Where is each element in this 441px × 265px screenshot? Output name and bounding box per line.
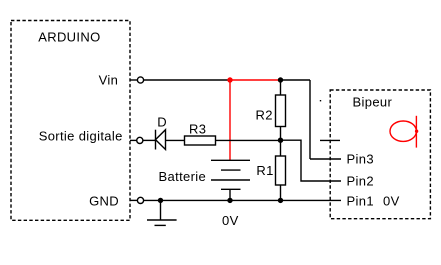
svg-text:R2: R2 — [256, 108, 273, 123]
svg-text:Batterie: Batterie — [159, 169, 207, 184]
svg-text:Pin3: Pin3 — [347, 152, 374, 167]
wire R2 bottom stub — [280, 127, 282, 141]
battery Batterie — [211, 160, 250, 200]
resistor R2 — [276, 95, 286, 127]
wire Vin to battery top (red horizontal) — [230, 79, 281, 81]
svg-text:Pin2: Pin2 — [347, 173, 374, 188]
block ARDUINO (dashed box) — [11, 21, 130, 221]
wire red vertical to battery plus — [229, 80, 231, 160]
wire R3 to divider junction — [216, 139, 281, 141]
junction node battery/GND rail — [227, 198, 232, 203]
wire vertical down to Pin3 — [309, 80, 311, 159]
svg-text:R3: R3 — [189, 121, 206, 136]
svg-text:Sortie digitale: Sortie digitale — [39, 128, 123, 143]
wire R1 bottom stub — [280, 185, 282, 200]
terminal Vin (open circle) — [130, 79, 137, 81]
svg-text:GND: GND — [89, 194, 119, 209]
junction node R1/GND rail — [278, 198, 283, 203]
block Bipeur (dashed box) — [330, 90, 430, 219]
wire GND rail to Pin1 — [144, 199, 341, 201]
terminal Sortie digitale (open circle) — [130, 139, 137, 141]
wire junction to Pin2 (right then down then right) — [281, 140, 342, 181]
stray dot — [320, 100, 321, 101]
wire diode to R3 — [166, 139, 185, 141]
wire Sortie digitale to diode — [143, 139, 156, 141]
svg-text:Bipeur: Bipeur — [353, 95, 393, 110]
svg-text:R1: R1 — [256, 163, 273, 178]
buzzer icon (red circle with bar) — [390, 116, 418, 148]
wire Vin junction to right — [281, 79, 311, 81]
unlabeled pin stub on Bipeur — [320, 139, 340, 141]
svg-text:Pin1: Pin1 — [347, 193, 374, 208]
svg-text:D: D — [157, 115, 167, 130]
wire Vin horizontal (black part) — [144, 79, 230, 81]
diode D (cathode bar left, triangle) — [156, 130, 166, 150]
terminal GND (open circle) — [130, 199, 137, 201]
junction node Vin/R2/Pin3 — [278, 77, 283, 82]
wire R1 top stub — [280, 140, 282, 156]
resistor R1 — [276, 156, 286, 185]
junction red dot at battery tap — [227, 77, 232, 82]
svg-text:Vin: Vin — [99, 73, 119, 88]
svg-text:0V: 0V — [383, 193, 400, 208]
junction node ground symbol — [158, 198, 163, 203]
junction node R2/R1/R3/Pin2 — [278, 138, 283, 143]
ground — [147, 200, 177, 225]
svg-text:ARDUINO: ARDUINO — [38, 29, 100, 44]
resistor R3 — [185, 136, 216, 145]
svg-text:0V: 0V — [222, 213, 239, 228]
wire R2 top stub — [280, 80, 282, 95]
wire Pin3 stub — [310, 158, 341, 160]
